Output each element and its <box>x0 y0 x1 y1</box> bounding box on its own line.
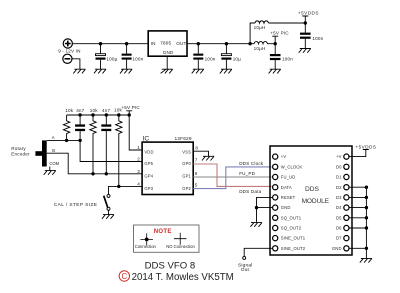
wire D6 to bus <box>349 227 366 229</box>
DDS pin SINE_OUT1 <box>273 236 306 241</box>
svg-text:10k: 10k <box>90 108 98 113</box>
svg-text:2014 T. Mowles VK5TM: 2014 T. Mowles VK5TM <box>132 272 234 283</box>
DDS pin DATA <box>273 185 292 190</box>
no connection symbol <box>174 233 187 245</box>
wire 7805 OUT rail <box>187 43 250 45</box>
svg-text:DDS Data: DDS Data <box>239 189 261 194</box>
svg-text:8: 8 <box>195 146 198 151</box>
junction dot bus D2 <box>365 186 368 189</box>
svg-text:100n: 100n <box>132 57 143 62</box>
svg-text:D3: D3 <box>336 195 342 200</box>
junction dot A R1 <box>65 139 68 142</box>
svg-text:GND: GND <box>163 50 174 55</box>
svg-text:SQ_OUT1: SQ_OUT1 <box>281 215 302 220</box>
wire VDD pin1 <box>129 115 142 150</box>
svg-text:4n7: 4n7 <box>102 108 110 113</box>
wire minus to ground <box>72 59 80 69</box>
svg-text:12F629: 12F629 <box>175 136 192 142</box>
svg-text:100µ: 100µ <box>106 57 117 62</box>
+5V PIC rail <box>67 114 130 116</box>
junction dot bus GND <box>365 247 368 250</box>
svg-text:GP3: GP3 <box>144 186 153 191</box>
capacitor 100n post-regulator <box>193 44 203 69</box>
wire encoder B to pin3 <box>47 153 142 174</box>
svg-text:W_CLOCK: W_CLOCK <box>281 164 303 169</box>
copyright symbol <box>119 271 129 281</box>
svg-text:D4: D4 <box>336 205 342 210</box>
ground under 5VDDS cap <box>299 49 311 53</box>
junction dot R3 pin4 <box>117 185 120 188</box>
wire GP5 pin2 <box>80 140 142 161</box>
svg-text:SQ_OUT2: SQ_OUT2 <box>281 226 302 231</box>
svg-text:IC: IC <box>143 135 150 142</box>
+5VDDS terminal <box>302 16 308 23</box>
svg-text:+5VDDS: +5VDDS <box>355 144 376 149</box>
ground under 7805 <box>161 69 173 73</box>
svg-text:3: 3 <box>137 169 140 174</box>
signal out terminal <box>243 256 246 259</box>
DDS pin SINE_OUT2 <box>273 246 306 251</box>
switch CAL top contact <box>107 194 110 197</box>
junction dot B R2 <box>91 172 94 175</box>
plus input terminal <box>63 39 72 48</box>
wire D3 to bus <box>349 196 366 198</box>
capacitor 100n 5VDDS <box>300 23 311 49</box>
wire GND to bus <box>349 247 366 249</box>
wire switch to ground <box>108 210 110 214</box>
junction dot bus D5 <box>365 216 368 219</box>
DDS pin D2 <box>336 185 349 190</box>
minus input terminal <box>63 54 72 63</box>
wire GND left to ground <box>257 208 273 223</box>
svg-text:COM: COM <box>49 161 59 166</box>
junction dot reset gnd <box>255 206 258 209</box>
connection symbol <box>140 233 153 245</box>
svg-text:A: A <box>52 135 55 140</box>
svg-text:NO Connection: NO Connection <box>166 244 195 249</box>
svg-text:GND: GND <box>332 246 342 251</box>
inductor 10uH top <box>255 21 269 23</box>
wire VSS pin8 to ground <box>193 151 208 156</box>
wire top inductor to 5VDDS node <box>269 22 306 24</box>
svg-text:GP1: GP1 <box>182 173 191 178</box>
DDS module box <box>270 146 352 255</box>
note box <box>134 225 200 252</box>
svg-text:10µH: 10µH <box>254 46 266 51</box>
wire DDS Clock blue GP2 to W_CLOCK <box>193 167 271 189</box>
capacitor 100n 5V PIC <box>270 44 281 69</box>
svg-text:Encoder: Encoder <box>11 151 30 156</box>
svg-text:FU_PD: FU_PD <box>239 171 255 176</box>
+5V PIC terminal rail <box>126 111 132 115</box>
wire D5 to bus <box>349 217 366 219</box>
svg-text:Out: Out <box>241 267 250 273</box>
DDS pin SQ_OUT2 <box>273 225 302 230</box>
DDS pin SQ_OUT1 <box>273 215 302 220</box>
DDS pin D7 <box>336 236 349 241</box>
svg-text:+V: +V <box>281 154 287 159</box>
svg-text:IN: IN <box>151 41 156 46</box>
svg-text:OUT: OUT <box>176 41 186 46</box>
svg-text:+5VDDS: +5VDDS <box>298 10 319 15</box>
svg-text:10k: 10k <box>65 108 73 113</box>
svg-text:D1: D1 <box>336 175 342 180</box>
svg-text:100n: 100n <box>205 57 216 62</box>
DDS pin D5 <box>336 215 349 220</box>
resistor 10k R2 <box>90 115 96 174</box>
wire FU_PD gray GP1 to FU_UD <box>193 176 271 178</box>
rotary encoder shaft <box>35 151 42 156</box>
wire DDS Data red GP0 to DATA <box>193 164 271 186</box>
DDS pin D1 <box>336 174 349 179</box>
wire +V to +5VDDS <box>349 150 369 157</box>
junction dot A C1 <box>78 139 81 142</box>
svg-text:6: 6 <box>195 171 198 176</box>
svg-text:SINE_OUT1: SINE_OUT1 <box>281 236 306 241</box>
svg-text:B: B <box>52 148 55 153</box>
ground under post-reg 100n <box>192 69 204 73</box>
svg-text:DATA: DATA <box>281 185 292 190</box>
capacitor 10u electrolytic <box>221 44 231 69</box>
junction dot <box>99 42 102 45</box>
svg-text:D6: D6 <box>336 226 342 231</box>
wire D4 to bus <box>349 207 366 209</box>
svg-text:100n: 100n <box>282 57 293 62</box>
wire main rail plus to 7805 IN <box>72 43 148 45</box>
svg-text:D2: D2 <box>336 185 342 190</box>
resistor 10k R3 <box>116 115 122 186</box>
junction dot bus D4 <box>365 206 368 209</box>
capacitor 100n input <box>122 44 132 69</box>
svg-text:MODULE: MODULE <box>302 198 330 205</box>
wire SINE_OUT2 to signal out <box>244 248 272 256</box>
svg-text:GP4: GP4 <box>144 173 153 178</box>
wire RESET to ground <box>257 197 273 207</box>
svg-text:C: C <box>121 272 127 281</box>
junction dot bus D3 <box>365 196 368 199</box>
DDS pin D3 <box>336 195 349 200</box>
svg-text:D5: D5 <box>336 215 342 220</box>
ground under 100n <box>120 69 132 73</box>
wire 7805 gnd <box>166 56 168 69</box>
DDS pin D6 <box>336 225 349 230</box>
svg-text:D0: D0 <box>336 164 342 169</box>
svg-text:GP2: GP2 <box>182 186 191 191</box>
junction dot B C2 <box>105 172 108 175</box>
svg-text:DDS: DDS <box>305 186 320 193</box>
rotary encoder body <box>42 140 47 166</box>
svg-text:VDD: VDD <box>144 150 153 155</box>
DDS pin GND left <box>273 205 291 210</box>
junction dot C1 top <box>78 113 81 116</box>
regulator 7805 <box>148 31 187 56</box>
svg-text:4n7: 4n7 <box>76 108 84 113</box>
ground under 10u <box>220 69 232 73</box>
svg-text:5: 5 <box>195 183 198 188</box>
DDS pin D4 <box>336 205 349 210</box>
wire COM to ground <box>49 167 51 171</box>
resistor 10k R1 <box>63 115 69 140</box>
junction dot <box>125 42 128 45</box>
svg-text:NOTE: NOTE <box>154 229 172 235</box>
svg-text:VSS: VSS <box>182 150 191 155</box>
svg-text:100n: 100n <box>312 36 323 41</box>
svg-text:10µ: 10µ <box>233 57 241 62</box>
svg-text:SINE_OUT2: SINE_OUT2 <box>281 246 306 251</box>
switch CAL bottom contact <box>107 207 110 210</box>
ground under 5V PIC cap <box>269 69 281 73</box>
svg-text:GP0: GP0 <box>182 161 191 166</box>
bus vertical <box>365 187 367 258</box>
junction dot 5V PIC <box>274 42 277 45</box>
junction dot C2 top <box>105 113 108 116</box>
DDS pin D0 <box>336 164 349 169</box>
svg-text:7805: 7805 <box>160 41 171 46</box>
wire up to top inductor <box>250 23 255 44</box>
svg-text:FU_UD: FU_UD <box>281 175 296 180</box>
junction dot 5VDDS <box>304 21 307 24</box>
DDS pin FU_UD <box>273 174 296 179</box>
svg-text:DDS Clock: DDS Clock <box>239 161 264 166</box>
junction dot rail end <box>128 113 131 116</box>
wire GP3 pin4 <box>109 186 143 194</box>
svg-text:9 - 12V IN: 9 - 12V IN <box>58 49 80 54</box>
svg-text:GND: GND <box>281 205 291 210</box>
op IC 12F629 box <box>142 142 193 194</box>
svg-text:Rotary: Rotary <box>11 146 26 151</box>
svg-text:4: 4 <box>137 182 140 187</box>
junction dot R3 top <box>117 113 120 116</box>
wire D2 to bus <box>349 186 366 188</box>
ground encoder COM <box>44 171 56 175</box>
junction dot R2 top <box>91 113 94 116</box>
svg-text:DDS VFO 8: DDS VFO 8 <box>145 261 196 272</box>
svg-text:Connection: Connection <box>135 244 157 249</box>
capacitor 100u electrolytic <box>96 44 106 69</box>
junction dot inductor split <box>248 42 251 45</box>
svg-text:1: 1 <box>137 145 140 150</box>
svg-text:D7: D7 <box>336 236 342 241</box>
svg-text:RESET: RESET <box>281 195 296 200</box>
svg-text:7: 7 <box>195 158 198 163</box>
svg-text:GP5: GP5 <box>144 161 153 166</box>
svg-text:10µH: 10µH <box>254 25 266 30</box>
switch CAL lever <box>104 196 108 208</box>
svg-text:CAL / STEP SIZE: CAL / STEP SIZE <box>54 202 98 208</box>
svg-text:+V: +V <box>336 154 342 159</box>
junction dot <box>197 42 200 45</box>
svg-text:+5V PIC: +5V PIC <box>121 105 140 110</box>
capacitor 4n7 C1 <box>75 115 85 140</box>
ground under switch <box>102 215 114 219</box>
DDS pin +V right <box>336 154 349 159</box>
DDS pin +V left <box>273 154 287 159</box>
inductor 10uH bottom <box>250 42 275 44</box>
svg-text:+5V PIC: +5V PIC <box>270 31 289 36</box>
+5V PIC terminal top <box>272 36 278 44</box>
svg-text:2: 2 <box>137 157 140 162</box>
ground under 100u <box>94 69 106 73</box>
ground bus <box>360 258 372 262</box>
wire encoder A <box>47 139 80 141</box>
ground at minus input <box>73 69 85 73</box>
junction dot <box>225 42 228 45</box>
ground VSS <box>202 156 214 160</box>
DDS pin RESET <box>273 195 296 200</box>
DDS pin W_CLOCK <box>273 164 303 169</box>
ground DDS left <box>250 223 262 227</box>
DDS pin GND right <box>332 246 349 251</box>
capacitor 4n7 C2 <box>101 115 111 174</box>
junction dot bus D6 <box>365 226 368 229</box>
